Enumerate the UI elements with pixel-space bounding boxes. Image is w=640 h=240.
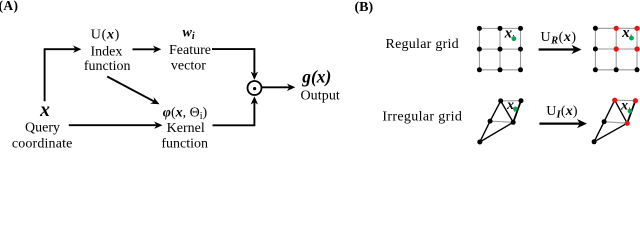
wire Kernel function to dot-product (up arrow) (213, 103, 255, 126)
regular grid right: nodes (black) (593, 26, 640, 73)
svg-text:Query: Query (25, 121, 60, 136)
regular grid right: grid lines (595, 28, 637, 70)
svg-text:UR(x): UR(x) (541, 30, 577, 47)
wire diagonal Index-function to Kernel arrow (107, 77, 154, 102)
svg-text:Index: Index (90, 45, 122, 60)
irregular mesh left: edges (480, 101, 521, 142)
svg-text:g(x): g(x) (301, 67, 331, 87)
svg-text:function: function (161, 137, 208, 150)
dot-product operator (248, 81, 262, 95)
svg-text:Regular grid: Regular grid (386, 37, 459, 52)
regular grid right: selected nodes (red) (614, 26, 640, 52)
irregular mesh right: selected nodes (red) (612, 98, 638, 126)
svg-text:Output: Output (300, 89, 340, 104)
irregular mesh right: edges (594, 100, 635, 142)
regular grid left: grid lines (479, 28, 520, 69)
wire Feature vector to dot-product (down arrow) (212, 49, 254, 74)
svg-text:(B): (B) (355, 0, 374, 15)
irregular mesh left: nodes (477, 98, 523, 144)
regular grid left: nodes (477, 26, 523, 72)
svg-text:vector: vector (171, 59, 206, 74)
svg-text:UI(x): UI(x) (546, 104, 578, 121)
svg-text:coordinate: coordinate (12, 137, 73, 149)
svg-text:Feature: Feature (169, 43, 211, 58)
svg-text:Irregular grid: Irregular grid (382, 109, 462, 124)
wire Query to Kernel arrow (69, 124, 157, 126)
svg-text:Kernel: Kernel (167, 121, 205, 136)
svg-text:function: function (84, 59, 131, 74)
svg-text:U(x): U(x) (91, 28, 120, 43)
svg-text:(A): (A) (0, 0, 18, 13)
wire Index to Feature arrow (133, 48, 156, 50)
svg-text:x: x (39, 100, 50, 121)
irregular mesh right: black nodes (592, 119, 607, 144)
wire elbow from x up to Index arrow (45, 49, 76, 101)
wire dot-product to g(x) arrow (262, 86, 290, 88)
